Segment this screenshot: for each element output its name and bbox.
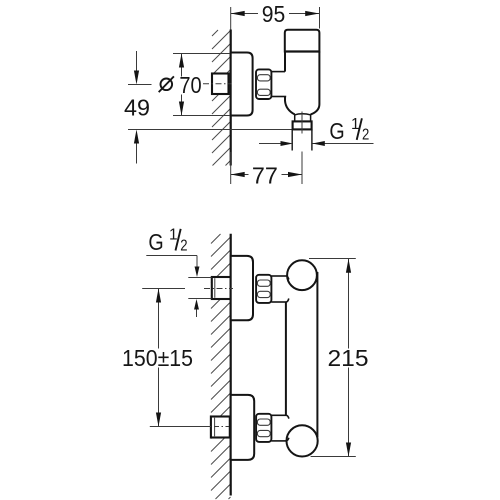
top flange (bottom view) — [231, 256, 253, 320]
outlet neck — [294, 114, 296, 121]
svg-text:77: 77 — [252, 162, 278, 188]
bar right edge — [316, 272, 318, 437]
top knob circle — [287, 260, 317, 290]
wall face line (bottom view) — [230, 234, 232, 496]
dim 95 — [231, 1, 320, 29]
wall hatching (top view) — [212, 30, 231, 166]
top hex nut (bottom view) — [256, 275, 271, 303]
bar left edge — [285, 302, 287, 415]
centerline top connection — [142, 288, 185, 290]
dim G 1/2 (top view) — [259, 116, 374, 146]
valve body cap — [285, 30, 320, 52]
square wall nipple (top view) — [212, 74, 229, 95]
connector nut-to-body (top view) — [271, 71, 285, 73]
svg-text:150±15: 150±15 — [122, 345, 193, 371]
dim 215 — [309, 259, 369, 457]
vertical centerline outlet — [301, 112, 303, 134]
G 1/2 label (bottom view) — [146, 226, 211, 317]
bottom hex nut (bottom view) — [256, 414, 271, 442]
svg-text:215: 215 — [328, 345, 369, 371]
top connector (bottom view) — [271, 275, 286, 277]
dim diameter 70 — [159, 54, 230, 116]
svg-text:70: 70 — [179, 72, 201, 98]
bottom square nipple (bottom view) — [211, 417, 230, 438]
dim 150+-15 — [122, 289, 193, 427]
svg-text:1: 1 — [169, 226, 178, 243]
flange (top view) — [231, 53, 253, 116]
outlet thread collar — [293, 121, 312, 129]
bottom knob circle — [287, 425, 318, 456]
top square nipple (bottom view) — [212, 277, 231, 299]
svg-text:2: 2 — [180, 237, 187, 254]
dim 77 — [231, 152, 302, 189]
horizontal centerline (top view) — [203, 83, 232, 85]
svg-text:95: 95 — [262, 1, 286, 27]
49 reference line — [128, 129, 293, 131]
valve body sides — [285, 52, 319, 115]
body dome bottom arc — [294, 114, 311, 115]
centerline bottom connection — [150, 426, 211, 428]
svg-text:G: G — [329, 118, 344, 144]
outlet pipe — [291, 129, 293, 150]
bottom connector (bottom view) — [271, 414, 286, 416]
svg-text:49: 49 — [124, 95, 150, 121]
svg-text:2: 2 — [362, 127, 369, 144]
wall hatching (bottom view) — [211, 234, 231, 499]
bottom flange (bottom view) — [231, 395, 255, 460]
hex nut (top view) — [256, 69, 271, 99]
wall face line (top view) — [230, 30, 232, 166]
svg-text:G: G — [148, 229, 163, 255]
dim 49 — [124, 51, 152, 164]
